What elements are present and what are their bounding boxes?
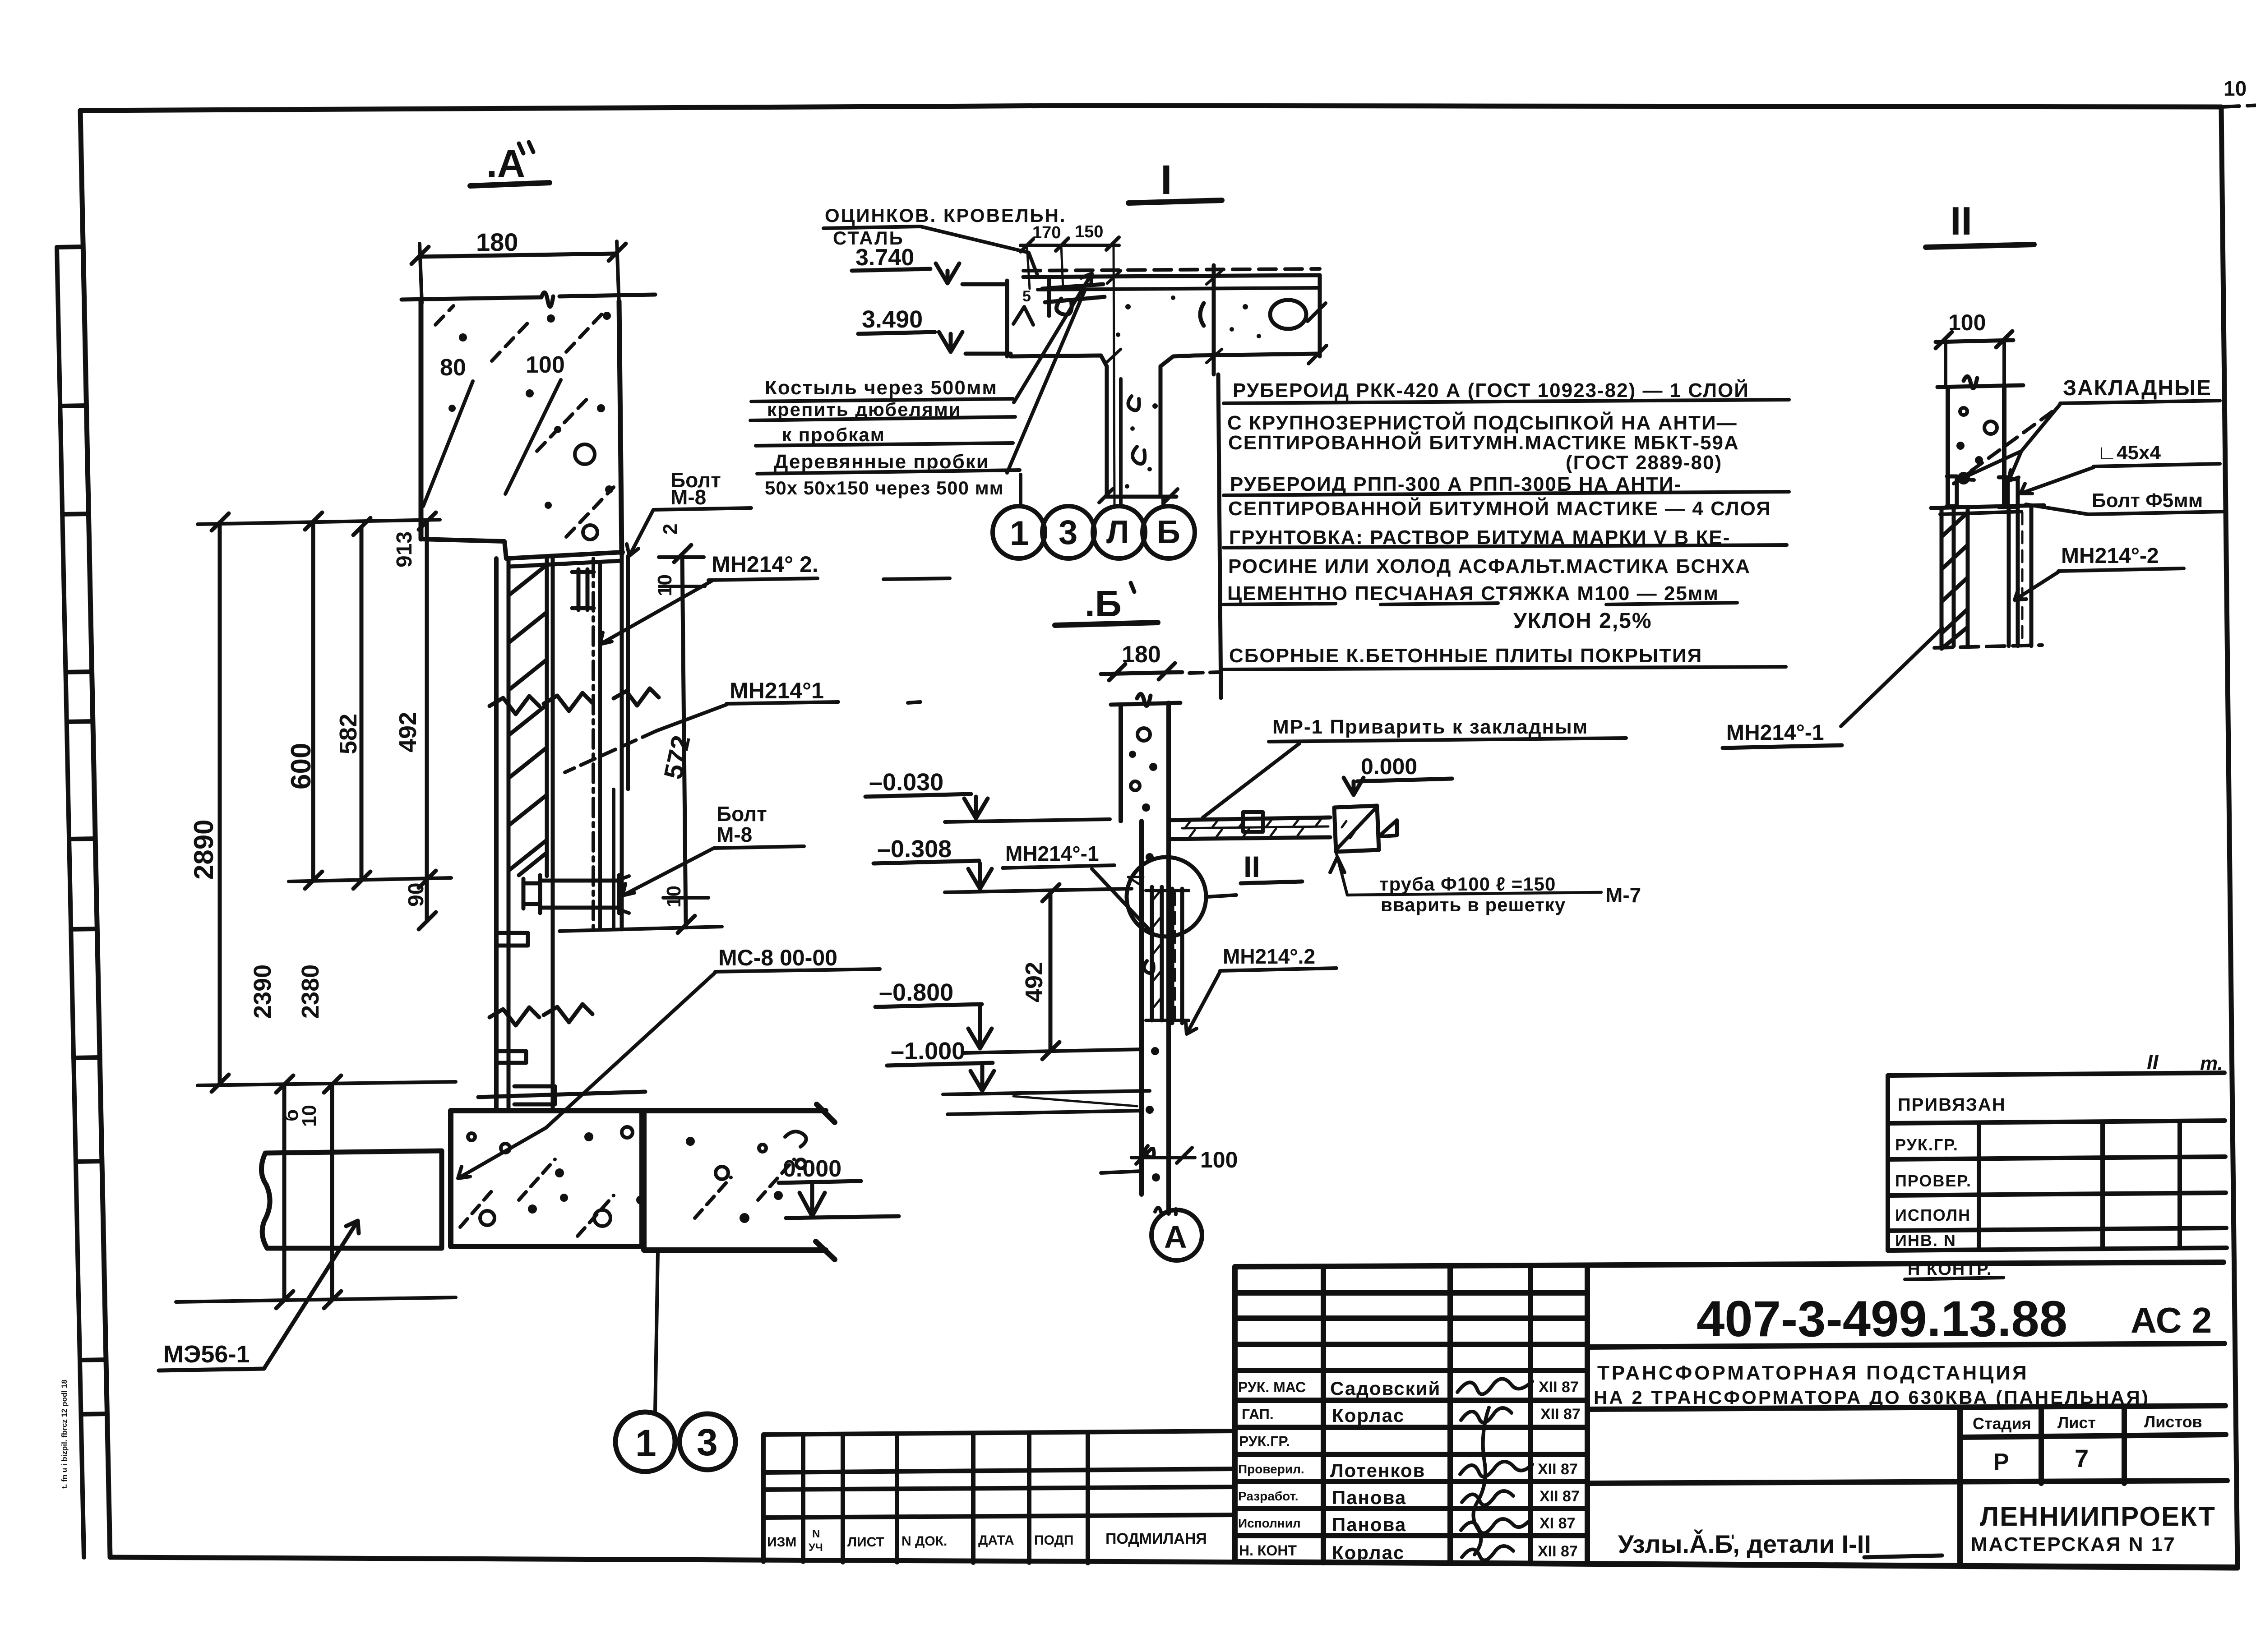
svg-text:СЕПТИРОВАННОЙ БИТУМНОЙ МАСТИКЕ: СЕПТИРОВАННОЙ БИТУМНОЙ МАСТИКЕ — 4 СЛОЯ: [1228, 497, 1771, 520]
svg-text:к пробкам: к пробкам: [782, 424, 885, 445]
svg-text:МС-8 00-00: МС-8 00-00: [718, 945, 837, 970]
left rough block: [261, 1151, 442, 1248]
svg-text:7: 7: [2075, 1444, 2089, 1472]
913/492/90 line: [425, 521, 429, 921]
svg-text:XII 87: XII 87: [1539, 1379, 1579, 1396]
section cut line: [1212, 265, 1216, 374]
svg-text:XII 87: XII 87: [1538, 1461, 1578, 1478]
svg-text:вварить в решетку: вварить в решетку: [1381, 894, 1566, 915]
svg-text:2: 2: [659, 524, 681, 535]
parapet / flashing: [1005, 281, 1009, 356]
svg-text:ОЦИНКОВ. КРОВЕЛЬН.: ОЦИНКОВ. КРОВЕЛЬН.: [825, 205, 1067, 226]
svg-text:ЗАКЛАДНЫЕ: ЗАКЛАДНЫЕ: [2063, 376, 2212, 400]
svg-text:2390: 2390: [249, 964, 276, 1019]
slab: [1023, 275, 1320, 277]
svg-text:–0.030: –0.030: [869, 769, 943, 796]
svg-text:ИСПОЛН: ИСПОЛН: [1895, 1206, 1971, 1224]
svg-text:МН214°-1: МН214°-1: [1726, 721, 1824, 745]
svg-text:Н. КОНТ: Н. КОНТ: [1239, 1542, 1297, 1559]
svg-text:–0.308: –0.308: [877, 835, 952, 863]
svg-text:Стадия: Стадия: [1973, 1414, 2031, 1433]
svg-text:10: 10: [2224, 77, 2247, 100]
svg-text:Садовский: Садовский: [1330, 1378, 1441, 1399]
svg-text:ГАП.: ГАП.: [1242, 1406, 1274, 1422]
concrete panel: [402, 295, 655, 300]
left fold strip: [57, 247, 107, 1557]
svg-text:Корлас: Корлас: [1332, 1542, 1405, 1563]
lower assembly: [1942, 508, 1968, 646]
svg-text:II: II: [1950, 198, 1972, 243]
svg-text:ЛЕННИИПРОЕКТ: ЛЕННИИПРОЕКТ: [1980, 1501, 2216, 1532]
svg-text:XII 87: XII 87: [1538, 1543, 1578, 1560]
svg-text:∟45х4: ∟45х4: [2097, 442, 2161, 464]
svg-text:ПОДП: ПОДП: [1034, 1533, 1073, 1548]
svg-text:ИЗМ: ИЗМ: [767, 1535, 796, 1550]
hatch of inner panel: [509, 565, 547, 875]
names: [1330, 1378, 1441, 1563]
svg-text:ЛИСТ: ЛИСТ: [847, 1535, 884, 1550]
svg-text:492: 492: [394, 712, 421, 752]
svg-text:МАСТЕРСКАЯ N 17: МАСТЕРСКАЯ N 17: [1971, 1533, 2176, 1555]
svg-text:СБОРНЫЕ К.БЕТОННЫЕ ПЛИТЫ ПО: СБОРНЫЕ К.БЕТОННЫЕ ПЛИТЫ ПОКРЫТИЯ: [1229, 645, 1702, 667]
svg-text:РУК.ГР.: РУК.ГР.: [1895, 1135, 1959, 1154]
svg-text:5: 5: [1022, 288, 1031, 305]
svg-text:ПРИВЯЗАН: ПРИВЯЗАН: [1898, 1095, 2006, 1115]
break marks: [490, 688, 659, 714]
svg-text:t. fn u i bizpil. fbrcz 12 pod: t. fn u i bizpil. fbrcz 12 podl 18: [60, 1380, 69, 1489]
492 dim: [1049, 893, 1053, 1051]
svg-text:80: 80: [440, 355, 466, 381]
svg-text:Листов: Листов: [2144, 1412, 2202, 1431]
2890 line: [218, 522, 222, 1084]
svg-text:ДАТА: ДАТА: [978, 1533, 1014, 1548]
svg-text:МР-1 Приварить к закладным: МР-1 Приварить к закладным: [1272, 716, 1588, 738]
572 dim with 2/10/10: [682, 554, 686, 925]
leader to circles 1,3: [655, 1252, 658, 1411]
rib: [1107, 366, 1160, 496]
svg-text:Панова: Панова: [1332, 1487, 1406, 1508]
end block hatched: [1334, 806, 1379, 852]
svg-text:3.740: 3.740: [855, 245, 914, 271]
svg-text:.Б: .Б: [1085, 583, 1122, 624]
svg-text:0.000: 0.000: [783, 1156, 841, 1182]
column: [1937, 385, 2023, 387]
svg-text:N: N: [812, 1528, 820, 1540]
svg-text:(ГОСТ 2889-80): (ГОСТ 2889-80): [1566, 452, 1722, 474]
voids and speckles: [1270, 300, 1306, 329]
svg-text:–1.000: –1.000: [891, 1038, 965, 1065]
svg-text:XII 87: XII 87: [1539, 1488, 1580, 1505]
wall below slab: [1139, 821, 1144, 1078]
svg-text:М-8: М-8: [717, 823, 752, 846]
svg-text:–0.800: –0.800: [879, 979, 953, 1006]
svg-text:II: II: [1244, 850, 1260, 883]
svg-text:СЕПТИРОВАННОЙ БИТУМН.МАСТИКЕ М: СЕПТИРОВАННОЙ БИТУМН.МАСТИКЕ МБКТ-59А: [1228, 431, 1739, 454]
svg-text:2890: 2890: [189, 820, 219, 880]
svg-text:Проверил.: Проверил.: [1238, 1462, 1304, 1476]
dim chains: [198, 520, 440, 524]
circles 1 3 L B: [1019, 475, 1022, 506]
left labels: [1238, 1379, 1306, 1559]
svg-text:0.000: 0.000: [1361, 754, 1417, 779]
leader to MN214-1: [1841, 628, 1942, 726]
circled 1 and 3: [615, 1412, 675, 1472]
svg-text:МН214°1: МН214°1: [730, 678, 824, 703]
svg-text:II: II: [2147, 1050, 2159, 1074]
svg-text:Л: Л: [1106, 514, 1129, 550]
bolt channel assembly: [540, 875, 619, 913]
svg-text:10: 10: [663, 886, 685, 908]
upper small connector below panel: [572, 569, 594, 610]
angle brackets on outer face: [496, 933, 528, 946]
svg-text:100: 100: [526, 352, 565, 378]
svg-text:Б: Б: [1157, 514, 1180, 550]
svg-text:180: 180: [1122, 641, 1161, 668]
svg-text:Панова: Панова: [1332, 1514, 1406, 1535]
svg-text:913: 913: [393, 531, 416, 568]
svg-text:М-8: М-8: [670, 485, 706, 509]
svg-text:М-7: М-7: [1605, 883, 1641, 907]
svg-text:3: 3: [1059, 513, 1077, 552]
svg-text:600: 600: [286, 743, 317, 789]
svg-text:ТРАНСФОРМАТОРНАЯ ПОДСТАНЦИЯ: ТРАНСФОРМАТОРНАЯ ПОДСТАНЦИЯ: [1597, 1362, 2029, 1384]
svg-text:170: 170: [1032, 223, 1061, 242]
svg-text:XII 87: XII 87: [1540, 1406, 1581, 1423]
embedded items at joint: [1947, 476, 2018, 507]
svg-text:3.490: 3.490: [862, 306, 923, 333]
svg-text:50х 50х150 через 500 мм: 50х 50х150 через 500 мм: [765, 477, 1004, 498]
svg-text:Болт: Болт: [717, 802, 767, 826]
svg-text:труба Ф100 ℓ =150: труба Ф100 ℓ =150: [1379, 873, 1556, 895]
svg-text:2380: 2380: [297, 964, 324, 1019]
svg-text:Болт Ф5мм: Болт Ф5мм: [2092, 489, 2203, 512]
metal channels MN: [1152, 887, 1162, 1020]
svg-text:РОСИНЕ ИЛИ ХОЛОД АСФАЛЬТ.МАСТИ: РОСИНЕ ИЛИ ХОЛОД АСФАЛЬТ.МАСТИКА БСНХА: [1228, 555, 1751, 577]
svg-text:3: 3: [697, 1421, 718, 1463]
svg-text:МН214°-2: МН214°-2: [2061, 544, 2159, 568]
svg-text:Р: Р: [1993, 1449, 2009, 1475]
upper wall column: [1111, 703, 1180, 705]
section circle II: [1127, 857, 1206, 937]
svg-text:Корлас: Корлас: [1332, 1405, 1405, 1426]
svg-text:100: 100: [1948, 310, 1986, 335]
dates: [1538, 1379, 1581, 1560]
2390 2380 lines: [282, 1084, 287, 1300]
svg-text:Костыль через 500мм: Костыль через 500мм: [765, 377, 998, 399]
lower wall + 100 dim: [1142, 1078, 1169, 1214]
svg-text:РУК. МАС: РУК. МАС: [1238, 1379, 1306, 1395]
svg-text:150: 150: [1075, 222, 1103, 241]
svg-text:МЭ56-1: МЭ56-1: [163, 1341, 250, 1368]
svg-text:ПРОВЕР.: ПРОВЕР.: [1895, 1172, 1972, 1190]
600 line: [311, 521, 315, 881]
svg-text:С КРУПНОЗЕРНИСТОЙ ПОДСЫПКОЙ НА: С КРУПНОЗЕРНИСТОЙ ПОДСЫПКОЙ НА АНТИ—: [1227, 411, 1738, 434]
svg-text:РУБЕРОИД РКК-420 А (ГОСТ 10923: РУБЕРОИД РКК-420 А (ГОСТ 10923-82) — 1 С…: [1233, 378, 1749, 401]
panel interior speckle + dashes: [435, 306, 614, 540]
svg-text:Лотенков: Лотенков: [1330, 1460, 1425, 1481]
wall assembly below panel: [494, 558, 499, 1107]
svg-text:МН214° 2.: МН214° 2.: [712, 552, 818, 577]
svg-text:582: 582: [335, 714, 362, 754]
svg-text:I: I: [1160, 157, 1172, 203]
base lines to footing: [478, 1092, 645, 1097]
svg-text:ЦЕМЕНТНО ПЕСЧАНАЯ СТЯЖКА М1: ЦЕМЕНТНО ПЕСЧАНАЯ СТЯЖКА М100 — 25мм: [1227, 582, 1719, 605]
svg-text:XI 87: XI 87: [1539, 1515, 1575, 1532]
svg-text:Исполнил: Исполнил: [1238, 1516, 1301, 1530]
svg-text:1: 1: [1010, 514, 1029, 553]
footing blocks: [451, 1104, 835, 1260]
svg-text:УКЛОН 2,5%: УКЛОН 2,5%: [1513, 609, 1652, 633]
svg-text:Лист: Лист: [2057, 1413, 2096, 1432]
leaders from labels to flashing: [1014, 273, 1092, 402]
svg-text:407-3-499.13.88: 407-3-499.13.88: [1697, 1291, 2067, 1347]
footing speckles: [460, 1127, 806, 1236]
svg-text:1: 1: [635, 1422, 656, 1464]
svg-text:ИНВ. N: ИНВ. N: [1895, 1231, 1956, 1250]
svg-text:НА 2 ТРАНСФОРМАТОРА ДО 630КВА: НА 2 ТРАНСФОРМАТОРА ДО 630КВА (ПАНЕЛЬНАЯ…: [1594, 1387, 2150, 1408]
signatures: [1457, 1379, 1532, 1560]
svg-text:ПОДМИЛАНЯ: ПОДМИЛАНЯ: [1105, 1530, 1207, 1547]
svg-text:б: б: [280, 1109, 302, 1121]
svg-text:УЧ: УЧ: [809, 1541, 823, 1554]
circled A: [1174, 1209, 1178, 1214]
svg-text:РУК.ГР.: РУК.ГР.: [1239, 1433, 1290, 1449]
svg-text:Узлы.А̌.Б̍, детали I-II: Узлы.А̌.Б̍, детали I-II: [1618, 1529, 1871, 1558]
svg-text:100: 100: [1200, 1147, 1238, 1172]
svg-text:N ДОК.: N ДОК.: [901, 1534, 947, 1549]
svg-text:МН214°.2: МН214°.2: [1223, 945, 1315, 968]
svg-text:Разработ.: Разработ.: [1238, 1489, 1299, 1503]
slab to the right: [1169, 817, 1330, 820]
svg-text:МН214°-1: МН214°-1: [1005, 842, 1099, 865]
svg-text:492: 492: [1021, 962, 1048, 1002]
svg-text:180: 180: [476, 228, 518, 256]
svg-text:А: А: [1164, 1219, 1187, 1255]
svg-text:АС 2: АС 2: [2131, 1300, 2212, 1340]
svg-text:90: 90: [404, 883, 428, 907]
svg-text:10: 10: [654, 574, 676, 596]
582 line: [360, 527, 364, 881]
